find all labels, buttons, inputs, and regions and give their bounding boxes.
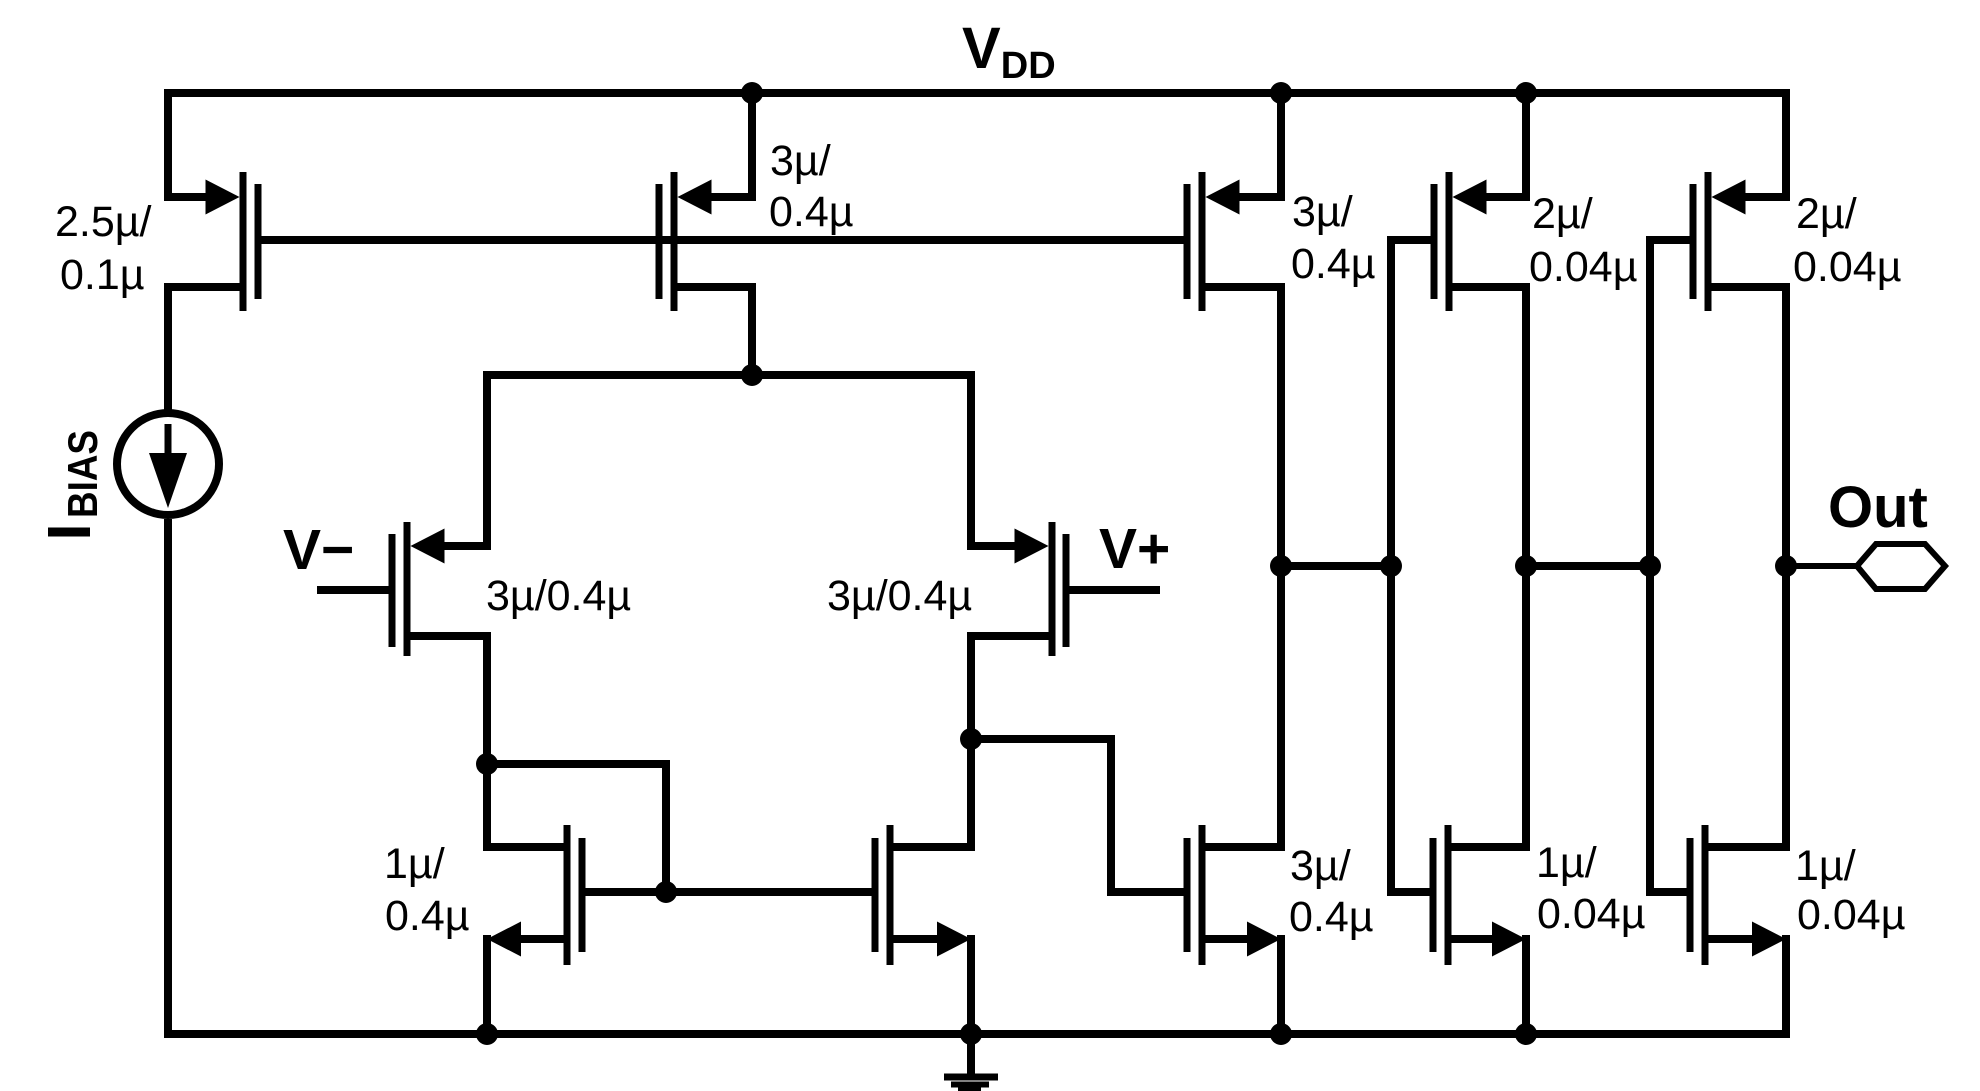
junction dot ground rail at M8 source — [1270, 1023, 1292, 1045]
node Q1 drain junction dot — [476, 753, 498, 775]
svg-text:0.4µ: 0.4µ — [1291, 240, 1376, 288]
wire link M3 drain to M4 gate — [1281, 562, 1391, 570]
junction dot M5 gate column at link — [1639, 555, 1661, 577]
transistor M1 2.5u/0.1u PMOS bias — [164, 172, 262, 311]
svg-text:0.04µ: 0.04µ — [1529, 243, 1637, 291]
node tail junction dot — [741, 364, 763, 386]
current source IBIAS — [117, 413, 219, 515]
junction dot ground rail at M9 source — [1515, 1023, 1537, 1045]
wire M4/M9 drain column — [1522, 287, 1530, 847]
wire M3/M8 drain column — [1277, 287, 1285, 847]
transistor M2 3u/0.4u PMOS tail source — [656, 172, 757, 311]
svg-text:1µ/: 1µ/ — [384, 840, 445, 888]
wire M7 source to ground — [967, 935, 975, 1034]
wire Q2 drain down to M7 drain — [967, 636, 975, 847]
node Out junction dot — [1775, 555, 1797, 577]
transistor M8 3u/0.4u NMOS second stage — [1184, 825, 1286, 965]
transistor Q1 V- input PMOS 3u/0.4u — [389, 522, 492, 656]
wire M1 drain to IBIAS — [168, 287, 240, 411]
transistor M7 1u/0.4u NMOS mirror — [872, 825, 976, 965]
svg-text:BIAS: BIAS — [59, 430, 106, 518]
svg-text:2µ/: 2µ/ — [1532, 190, 1593, 238]
wire M10 source to ground — [1782, 939, 1790, 1034]
svg-text:0.4µ: 0.4µ — [1289, 893, 1374, 941]
wire M2 drain to tail node — [678, 287, 753, 375]
svg-text:3µ/: 3µ/ — [1290, 842, 1351, 890]
svg-text:3µ/: 3µ/ — [1292, 188, 1353, 236]
node VDD junction dot at M2 source drop — [741, 82, 763, 104]
ground rail VSS from below IBIAS to M10 source — [168, 519, 1786, 1034]
junction dot M6 gate rail — [655, 881, 677, 903]
node VDD junction dot at M4 source drop — [1515, 82, 1537, 104]
port Out hexagon — [1857, 544, 1945, 589]
wire V- gate stub — [317, 586, 389, 594]
svg-text:0.04µ: 0.04µ — [1797, 891, 1905, 939]
transistor M3 3u/0.4u PMOS — [1184, 172, 1286, 311]
power rail VDD with end drops to M1 and M5 sources — [168, 93, 1786, 197]
wire VDD drop to M4 source — [1522, 93, 1530, 197]
junction dot M4 gate column at link — [1380, 555, 1402, 577]
transistor M6 1u/0.4u NMOS mirror — [483, 825, 586, 965]
label IBIAS — [48, 430, 106, 537]
ground symbol — [944, 1034, 998, 1090]
svg-text:0.1µ: 0.1µ — [60, 251, 145, 299]
junction dot ground rail at M6 source — [476, 1023, 498, 1045]
node M4 drain junction dot — [1515, 555, 1537, 577]
wire Q2 drain to M8 gate — [971, 739, 1184, 892]
wire M9 source to ground — [1522, 935, 1530, 1034]
svg-text:2.5µ/: 2.5µ/ — [55, 198, 152, 246]
svg-text:0.4µ: 0.4µ — [769, 188, 854, 236]
svg-text:0.4µ: 0.4µ — [385, 892, 470, 940]
wire gate rail M6-M7 — [586, 888, 872, 896]
wire M9 gate stub — [1387, 888, 1430, 896]
transistor M10 1u/0.04u NMOS output — [1687, 825, 1791, 965]
svg-text:3µ/0.4µ: 3µ/0.4µ — [827, 572, 972, 620]
svg-text:3µ/: 3µ/ — [770, 137, 831, 185]
node first-stage output junction dot — [1270, 555, 1292, 577]
svg-text:1µ/: 1µ/ — [1795, 842, 1856, 890]
svg-text:0.04µ: 0.04µ — [1537, 890, 1645, 938]
svg-text:0.04µ: 0.04µ — [1793, 243, 1901, 291]
wire gate rail M1-M2-M3 — [258, 236, 1187, 244]
svg-text:Out: Out — [1828, 475, 1928, 540]
node Q2 drain junction dot — [960, 728, 982, 750]
wire M6 source to ground rail — [483, 935, 491, 1034]
svg-text:VDD: VDD — [962, 16, 1056, 87]
wire M4 gate stub — [1391, 240, 1431, 892]
svg-text:2µ/: 2µ/ — [1796, 190, 1857, 238]
svg-text:V+: V+ — [1099, 517, 1170, 581]
svg-text:V−: V− — [283, 518, 354, 582]
transistor M9 1u/0.04u NMOS — [1430, 825, 1531, 965]
wire V+ gate stub — [1070, 586, 1161, 594]
wire M8 source to ground — [1277, 935, 1285, 1034]
node VDD junction dot at M3 source drop — [1270, 82, 1292, 104]
junction dot ground rail at M7 source / ground symbol — [960, 1023, 982, 1045]
wire M6 diode connection to gate rail — [487, 764, 666, 892]
wire Q1 drain down to M6 drain — [483, 636, 491, 847]
transistor M4 2u/0.04u PMOS — [1431, 172, 1531, 311]
wire M5/M10 drain column (output) — [1782, 287, 1790, 847]
wire VDD drop to M3 source — [1277, 93, 1285, 197]
wire M5 gate stub — [1650, 240, 1690, 892]
svg-text:1µ/: 1µ/ — [1536, 839, 1597, 887]
transistor Q2 V+ input PMOS 3u/0.4u — [967, 522, 1070, 656]
wire differential pair tail rail — [487, 375, 971, 546]
wire Out stub — [1786, 563, 1857, 569]
wire M10 gate stub — [1646, 888, 1687, 896]
wire link M4 drain to M5 gate — [1526, 562, 1650, 570]
svg-text:3µ/0.4µ: 3µ/0.4µ — [486, 572, 631, 620]
transistor M5 2u/0.04u PMOS output — [1690, 172, 1791, 311]
wire VDD drop to M2 source — [748, 93, 756, 197]
